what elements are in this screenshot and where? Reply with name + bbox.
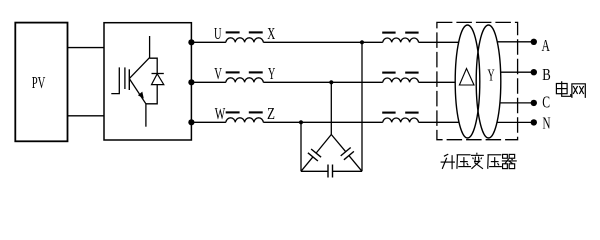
diode D1 cathode bar (152, 73, 164, 75)
wire row U segment 1 (191, 41, 226, 43)
label 电网 (grid), hand-drawn strokes (556, 81, 585, 98)
transformer T1 secondary winding ellipse (476, 25, 501, 138)
transformer T1 dashed box (437, 22, 518, 139)
wire W drop to capacitor bank (300, 122, 302, 171)
inductor L5 core dash 2 (405, 72, 418, 74)
wire row V segment 3 (419, 81, 456, 83)
svg-text:X: X (267, 24, 275, 43)
svg-text:V: V (214, 64, 222, 83)
wire output A (497, 41, 534, 43)
transistor Q1 collector top lead (149, 36, 151, 58)
capacitor C2 plates (341, 148, 351, 156)
svg-text:N: N (543, 114, 551, 133)
capacitor C3 bottom branch (301, 170, 328, 172)
node V on inverter output (188, 79, 194, 85)
svg-text:PV: PV (32, 73, 46, 92)
wire row V segment 1 (191, 81, 226, 83)
svg-text:Y: Y (488, 65, 495, 84)
wire output B (501, 71, 534, 73)
transistor Q1 body bar (128, 69, 130, 90)
wire row U segment 3 (419, 41, 459, 43)
inductor L5 coil (383, 78, 419, 82)
diode D1 triangle (152, 74, 164, 85)
svg-text:A: A (542, 36, 551, 55)
capacitor C1 left diagonal branch (301, 157, 313, 171)
PV box (15, 23, 67, 142)
char 变 (471, 153, 484, 169)
inductor L6 coil (383, 118, 419, 122)
wire PV- to inverter (67, 115, 104, 117)
wire V drop to capacitor bank (330, 82, 332, 134)
wire output C (500, 102, 534, 104)
transformer T1 primary winding ellipse (455, 25, 480, 138)
inductor L6 core dash 1 (382, 112, 395, 114)
char 器 (502, 154, 517, 168)
transistor Q1 collector diagonal (129, 58, 149, 79)
label 升压变压器 (step-up transformer), hand-drawn strokes (441, 153, 517, 170)
node V2 junction (329, 80, 333, 84)
inductor L3 coil (226, 118, 263, 122)
inductor L4 coil (383, 38, 419, 42)
node U2 junction (360, 40, 364, 44)
diode D1 bottom link (146, 85, 157, 104)
svg-text:B: B (542, 65, 551, 84)
char 电 (556, 81, 570, 96)
wire row W segment 1 (191, 121, 226, 123)
wire output N (497, 121, 534, 123)
capacitor C2 right diagonal branch (331, 135, 345, 152)
node W2 junction (299, 120, 303, 124)
wire row U segment 2 (263, 41, 383, 43)
inductor L3 core dash 1 (226, 111, 240, 113)
node B (531, 69, 537, 75)
transistor Q1 emitter diagonal with arrow (129, 79, 146, 104)
inductor L5 core dash 1 (382, 72, 395, 74)
inductor L2 core dash 2 (249, 71, 263, 73)
inductor L6 core dash 2 (405, 112, 418, 114)
wire U drop to capacitor bank (361, 42, 363, 171)
inductor L1 core dash 2 (249, 31, 263, 33)
inductor L3 core dash 2 (249, 111, 263, 113)
svg-text:U: U (214, 24, 222, 43)
char 升 (441, 154, 455, 169)
node N (531, 119, 537, 125)
char 压 (457, 155, 471, 169)
inductor L2 core dash 1 (226, 71, 240, 73)
capacitor C1 plates (308, 153, 318, 161)
svg-text:Z: Z (267, 104, 275, 123)
wire row W segment 3 (419, 121, 459, 123)
transistor Q1 gate bar (124, 67, 126, 89)
inductor L1 core dash 1 (226, 31, 240, 33)
node W on inverter output (188, 119, 194, 125)
node A (531, 39, 537, 45)
inductor L2 coil (226, 78, 263, 82)
node C (531, 100, 537, 106)
inductor L4 core dash 2 (405, 32, 418, 34)
node U on inverter output (188, 39, 194, 45)
transformer delta symbol (459, 69, 474, 86)
svg-text:Y: Y (268, 64, 275, 83)
wire row V segment 2 (263, 81, 383, 83)
inductor L1 coil (226, 38, 263, 42)
inductor L4 core dash 1 (382, 32, 395, 34)
capacitor C3 plates (327, 165, 329, 178)
wire row W segment 2 (263, 121, 383, 123)
svg-text:C: C (542, 93, 550, 112)
char 压 (second) (487, 155, 501, 169)
diode D1 top link (150, 58, 158, 73)
wire PV+ to inverter (67, 47, 104, 49)
svg-text:W: W (215, 104, 226, 123)
inverter box U1 (104, 23, 191, 140)
char 网 (572, 84, 585, 98)
transistor Q1 emitter bottom lead (145, 104, 147, 127)
transistor Q1 gate lead (111, 67, 119, 93)
